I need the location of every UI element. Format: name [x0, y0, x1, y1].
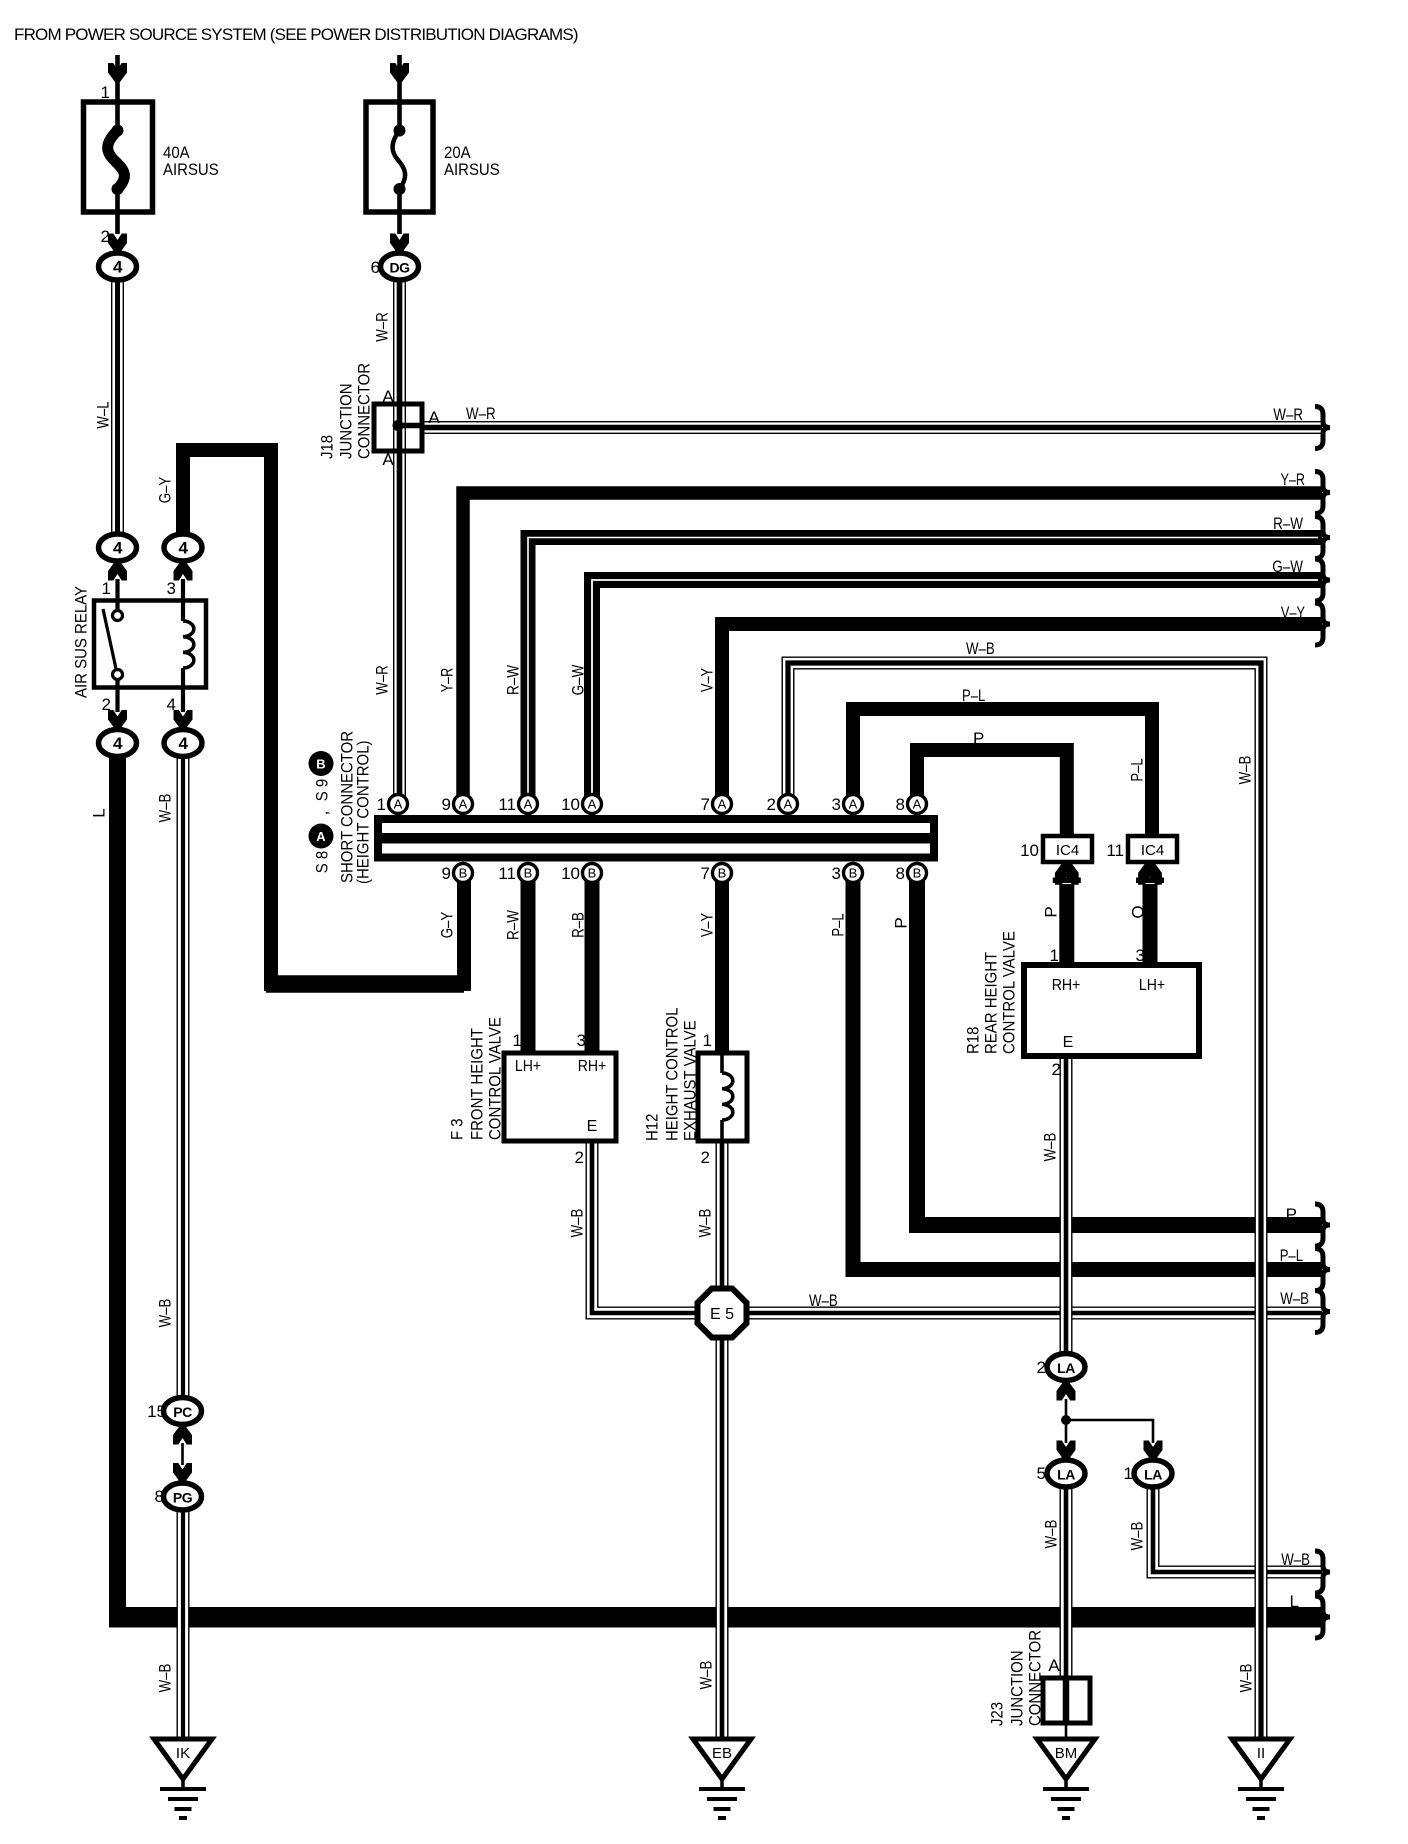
label G-Y at 9B — [438, 912, 457, 939]
svg-text:W–L: W–L — [94, 401, 113, 428]
connector 5 LA — [1037, 1460, 1085, 1487]
title text — [14, 25, 578, 44]
label R-B at 10B — [569, 912, 588, 938]
short connector name — [338, 731, 373, 884]
relay name AIR SUS RELAY — [72, 586, 91, 698]
label V-Y — [698, 668, 717, 692]
edge label P — [1286, 1205, 1297, 1224]
svg-text:CONTROL VALVE: CONTROL VALVE — [1000, 931, 1019, 1054]
wire W-B H12 E to E5 — [716, 1141, 729, 1290]
brace L right edge — [1315, 1596, 1330, 1638]
pin 3B — [832, 864, 863, 884]
svg-text:10: 10 — [1020, 841, 1039, 860]
svg-text:A: A — [382, 387, 394, 406]
svg-text:4: 4 — [179, 734, 189, 753]
svg-text:R–B: R–B — [569, 912, 588, 938]
splice E5 — [698, 1289, 747, 1338]
svg-text:8: 8 — [896, 864, 905, 883]
svg-text:BM: BM — [1055, 1745, 1078, 1762]
brace G-W right edge — [1315, 559, 1330, 601]
edge label L — [1290, 1592, 1299, 1611]
wire P-L 3A to IC4 no.11 — [853, 709, 1152, 838]
brace W-B lower right edge — [1315, 1551, 1330, 1593]
svg-text:IK: IK — [176, 1745, 190, 1762]
svg-text:R–W: R–W — [504, 910, 523, 940]
svg-text:A: A — [524, 797, 533, 812]
wire V-Y 7A to right edge — [722, 624, 1322, 810]
wire W-B R18 E to 2LA — [1060, 1056, 1073, 1355]
svg-text:REAR HEIGHT: REAR HEIGHT — [982, 952, 1001, 1054]
svg-text:A: A — [394, 797, 403, 812]
svg-text:W–B: W–B — [156, 1664, 175, 1693]
svg-text:AIRSUS: AIRSUS — [163, 160, 219, 179]
svg-text:FRONT HEIGHT: FRONT HEIGHT — [468, 1028, 487, 1140]
F3 pin 3 — [577, 1031, 586, 1050]
svg-text:7: 7 — [701, 864, 710, 883]
wire W-B 5LA to J23 — [1060, 1486, 1073, 1680]
svg-text:W–R: W–R — [466, 404, 496, 423]
relay pin 4 — [167, 695, 176, 714]
svg-text:JUNCTION: JUNCTION — [1008, 1650, 1027, 1726]
edge label Y-R — [1281, 470, 1305, 489]
connector 8 PG — [155, 1483, 202, 1510]
fuse1 pin 2 — [101, 227, 110, 246]
label W-B relay out — [156, 794, 175, 823]
edge label V-Y — [1281, 603, 1305, 622]
svg-text:P: P — [973, 729, 984, 748]
label W-B to IK — [156, 1664, 175, 1693]
R18 pin 3 — [1136, 946, 1145, 965]
svg-text:P: P — [1286, 1205, 1297, 1224]
svg-text:A: A — [1048, 1656, 1060, 1675]
svg-text:B: B — [459, 866, 468, 881]
svg-text:FROM POWER SOURCE SYSTEM (SEE: FROM POWER SOURCE SYSTEM (SEE POWER DIST… — [14, 25, 578, 44]
svg-text:W–B: W–B — [809, 1291, 838, 1310]
label P 8A — [973, 729, 984, 748]
junction IC4 no.11 — [1106, 836, 1177, 862]
svg-text:IC4: IC4 — [1056, 842, 1079, 859]
ground II — [1232, 1739, 1290, 1818]
svg-text:9: 9 — [442, 795, 451, 814]
connector 4 relay pin3 — [164, 534, 202, 561]
wire G-Y relay pin3 loop to short connector 9B — [183, 450, 464, 984]
svg-text:1: 1 — [513, 1031, 522, 1050]
wire W-B F3 E to E5 — [592, 1141, 700, 1313]
front height control valve F3 — [504, 1053, 616, 1141]
pin 9B — [442, 864, 473, 884]
svg-text:L: L — [90, 808, 109, 817]
brace P right edge — [1315, 1204, 1330, 1246]
label W-B 1LA — [1128, 1522, 1147, 1551]
svg-text:15: 15 — [147, 1402, 166, 1421]
svg-text:B: B — [588, 866, 597, 881]
svg-text:A: A — [316, 829, 326, 844]
label W-B to EB — [697, 1661, 716, 1690]
label W-B right side — [1236, 756, 1255, 785]
fuse1 pin 1 — [101, 83, 110, 102]
R18 pin 2 — [1052, 1060, 1061, 1079]
wire R-W 11B to F3 pin1 — [521, 878, 536, 1053]
svg-text:H12: H12 — [643, 1114, 662, 1141]
svg-text:2: 2 — [1052, 1060, 1061, 1079]
svg-text:4: 4 — [113, 539, 123, 558]
label P to IC4 — [1042, 906, 1061, 917]
svg-text:II: II — [1257, 1745, 1265, 1762]
svg-text:3: 3 — [832, 795, 841, 814]
svg-text:G–W: G–W — [1272, 557, 1303, 576]
J18 pin A right — [428, 408, 440, 427]
svg-text:B: B — [524, 866, 533, 881]
svg-text:5: 5 — [1037, 1464, 1046, 1483]
svg-text:10: 10 — [561, 795, 580, 814]
brace W-B right edge — [1315, 1291, 1330, 1333]
svg-text:8: 8 — [896, 795, 905, 814]
label R-W at 11B — [504, 910, 523, 940]
J18 name — [318, 363, 374, 459]
svg-text:HEIGHT CONTROL: HEIGHT CONTROL — [663, 1008, 682, 1142]
wire W-B PG to ground IK — [177, 1508, 190, 1740]
svg-text:LA: LA — [1057, 1467, 1075, 1483]
connector 4 relay pin1 — [99, 534, 137, 561]
label G-Y — [156, 477, 175, 504]
J23 pin A — [1048, 1656, 1060, 1675]
LA branch node — [1057, 1382, 1163, 1460]
svg-text:E: E — [587, 1118, 598, 1135]
svg-text:11: 11 — [498, 864, 516, 883]
svg-text:W–B: W–B — [1128, 1522, 1147, 1551]
label G-W — [569, 665, 588, 696]
svg-text:CONNECTOR: CONNECTOR — [355, 363, 374, 459]
svg-text:W–B: W–B — [966, 639, 995, 658]
svg-text:W–B: W–B — [156, 1299, 175, 1328]
air sus relay box — [94, 579, 206, 712]
svg-text:JUNCTION: JUNCTION — [337, 383, 356, 459]
label V-Y at 7B — [698, 913, 717, 937]
short connector id S8 S9 — [309, 751, 334, 873]
svg-text:1: 1 — [1124, 1464, 1133, 1483]
short connector bar S8/S9 — [378, 819, 935, 858]
label P-L at 3B — [829, 913, 848, 936]
label Y-R — [438, 668, 457, 692]
fuse1 value 40A AIRSUS — [163, 143, 219, 179]
svg-text:11: 11 — [1106, 841, 1124, 860]
pin 8A — [896, 795, 927, 815]
svg-text:W–R: W–R — [373, 665, 392, 695]
arrow into connector pin2 — [108, 710, 127, 729]
edge label W-R — [1273, 405, 1303, 424]
connector 15 PC — [147, 1398, 201, 1425]
wire W-B 1LA to right edge — [1153, 1486, 1322, 1572]
label W-R fuse2 — [373, 312, 392, 342]
F3 pin 1 — [513, 1031, 522, 1050]
svg-text:G–W: G–W — [569, 665, 588, 696]
edge label G-W — [1272, 557, 1303, 576]
brace V-Y right edge — [1315, 603, 1330, 645]
pin 7B — [701, 864, 732, 884]
ground EB — [693, 1739, 751, 1818]
pin 10B — [561, 864, 601, 884]
relay pin 2 — [102, 695, 111, 714]
svg-text:PC: PC — [173, 1404, 192, 1420]
svg-text:8: 8 — [155, 1487, 164, 1506]
svg-text:4: 4 — [113, 258, 123, 277]
svg-text:W–B: W–B — [1281, 1550, 1310, 1569]
svg-text:RH+: RH+ — [578, 1058, 607, 1075]
svg-text:2: 2 — [575, 1148, 584, 1167]
wire V-Y 7B to H12 pin1 — [715, 878, 729, 1053]
svg-text:6: 6 — [371, 258, 380, 277]
F3 name — [448, 1017, 505, 1140]
label R-W — [504, 665, 523, 695]
svg-text:3: 3 — [167, 579, 176, 598]
svg-text:A: A — [718, 797, 727, 812]
label W-R at J18 — [466, 404, 496, 423]
svg-text:3: 3 — [832, 864, 841, 883]
svg-text:W–B: W–B — [1237, 1664, 1256, 1693]
connector 1 LA — [1124, 1460, 1172, 1487]
svg-text:W–B: W–B — [1042, 1520, 1061, 1549]
label W-B R18 E — [1041, 1133, 1060, 1162]
ground IK — [154, 1739, 212, 1818]
wire W-B relay pin4 to PC — [177, 757, 190, 1399]
edge label W-B — [1280, 1289, 1309, 1308]
svg-text:A: A — [849, 797, 858, 812]
svg-text:L: L — [1290, 1592, 1299, 1611]
svg-text:W–B: W–B — [1236, 756, 1255, 785]
junction connector J18 — [374, 404, 424, 451]
svg-text:11: 11 — [498, 795, 516, 814]
pin 9A — [442, 795, 473, 815]
svg-text:W–B: W–B — [697, 1661, 716, 1690]
svg-text:3: 3 — [1136, 946, 1145, 965]
svg-text:S 8: S 8 — [313, 851, 332, 874]
pin 8B — [896, 864, 927, 884]
wire W-R fuse2 through J18 to 1A — [393, 278, 406, 798]
svg-text:G–Y: G–Y — [156, 477, 175, 504]
svg-text:P–L: P–L — [1280, 1246, 1303, 1265]
wire R-W 11A to right edge — [528, 538, 1322, 811]
brace Y-R right edge — [1315, 472, 1330, 514]
label W-L — [94, 401, 113, 428]
relay pin 3 — [167, 579, 176, 598]
H12 pin 1 — [703, 1031, 712, 1050]
svg-text:2: 2 — [102, 695, 111, 714]
R18 pin 1 — [1050, 946, 1059, 965]
height control exhaust valve H12 — [698, 1053, 747, 1141]
label P-L 3A — [962, 686, 985, 705]
svg-text:1: 1 — [703, 1031, 712, 1050]
connector 4 relay pin2 — [99, 730, 137, 757]
svg-text:LH+: LH+ — [1139, 977, 1165, 994]
svg-text:1: 1 — [102, 579, 111, 598]
wire P 8B to right edge — [917, 878, 1322, 1225]
svg-text:W–B: W–B — [568, 1209, 587, 1238]
fuse 20A AIRSUS — [366, 55, 433, 253]
label W-B 5LA — [1042, 1520, 1061, 1549]
svg-text:Y–R: Y–R — [1281, 470, 1305, 489]
svg-text:W–B: W–B — [1041, 1133, 1060, 1162]
svg-text:G–Y: G–Y — [438, 912, 457, 939]
svg-text:A: A — [588, 797, 597, 812]
svg-text:P: P — [892, 917, 911, 928]
fuse 40A AIRSUS — [84, 55, 153, 253]
svg-text:RH+: RH+ — [1052, 977, 1081, 994]
svg-text:DG: DG — [390, 260, 411, 276]
svg-text:P–L: P–L — [1128, 758, 1147, 781]
svg-text:(HEIGHT CONTROL): (HEIGHT CONTROL) — [354, 741, 373, 885]
svg-text:R–W: R–W — [1273, 514, 1303, 533]
svg-text:3: 3 — [577, 1031, 586, 1050]
svg-text:J23: J23 — [988, 1702, 1007, 1726]
svg-text:LA: LA — [1144, 1467, 1162, 1483]
svg-text:AIR SUS RELAY: AIR SUS RELAY — [72, 586, 91, 698]
svg-text:Y–R: Y–R — [438, 668, 457, 692]
svg-text:P: P — [1042, 906, 1061, 917]
wire W-L fuse1 to relay connector — [111, 278, 124, 562]
svg-text:W–B: W–B — [696, 1209, 715, 1238]
edge label W-B lower — [1281, 1550, 1310, 1569]
svg-text:LH+: LH+ — [515, 1058, 541, 1075]
label P at 8B — [892, 917, 911, 928]
wire R-B 10B to F3 pin3 — [585, 878, 600, 1053]
label W-B 2A — [966, 639, 995, 658]
svg-text:B: B — [316, 757, 325, 772]
svg-text:J18: J18 — [318, 435, 337, 459]
svg-text:7: 7 — [701, 795, 710, 814]
label W-B to II — [1237, 1664, 1256, 1693]
H12 name — [643, 1008, 700, 1142]
svg-text:4: 4 — [167, 695, 176, 714]
pin 11A — [498, 795, 537, 815]
rear height control valve R18 — [1024, 965, 1199, 1056]
svg-text:F 3: F 3 — [448, 1118, 467, 1140]
J18 pin A bottom — [382, 450, 394, 469]
brace P-L right edge — [1315, 1249, 1330, 1291]
svg-text:IC4: IC4 — [1141, 842, 1164, 859]
fuse2 value 20A AIRSUS — [444, 143, 500, 179]
svg-text:W–B: W–B — [156, 794, 175, 823]
svg-text:4: 4 — [179, 539, 189, 558]
svg-text:V–Y: V–Y — [698, 913, 717, 937]
svg-text:R–W: R–W — [504, 665, 523, 695]
pin 2A — [767, 795, 798, 815]
svg-text:V–Y: V–Y — [698, 668, 717, 692]
junction connector J23 — [1043, 1678, 1090, 1740]
svg-text:,: , — [313, 811, 332, 816]
label W-B F3 E — [568, 1209, 587, 1238]
svg-text:1: 1 — [377, 795, 386, 814]
brace R-W right edge — [1315, 517, 1330, 559]
edge label P-L — [1280, 1246, 1303, 1265]
arrow into connector pin1 — [108, 562, 127, 581]
wire P 8A to IC4 no.10 — [917, 750, 1067, 838]
svg-text:S 9: S 9 — [313, 779, 332, 802]
J23 name — [988, 1630, 1045, 1726]
svg-text:A: A — [784, 797, 793, 812]
junction IC4 no.10 — [1020, 836, 1092, 862]
svg-text:E: E — [1063, 1034, 1074, 1051]
wire P-L 3B to right edge — [853, 878, 1322, 1270]
wire L relay pin2 to right edge (heavy) — [109, 757, 1323, 1628]
label W-B at E5 — [809, 1291, 838, 1310]
svg-text:R18: R18 — [964, 1027, 983, 1054]
F3 pin 2 — [575, 1148, 584, 1167]
label P-L vertical — [1128, 758, 1147, 781]
pin 7A — [701, 795, 732, 815]
connector 4 relay pin4 — [164, 730, 202, 757]
svg-text:LA: LA — [1057, 1360, 1075, 1376]
arrow into connector pin4 — [174, 710, 193, 729]
svg-text:B: B — [849, 866, 858, 881]
svg-text:9: 9 — [442, 864, 451, 883]
wire W-B E5 to right edge — [744, 1307, 1322, 1320]
svg-text:EB: EB — [712, 1745, 732, 1762]
wire W-B 2A to right edge and ground II — [788, 663, 1261, 1740]
wire W-R J18 to right edge — [420, 421, 1322, 434]
svg-text:EXHAUST VALVE: EXHAUST VALVE — [681, 1020, 700, 1141]
svg-text:A: A — [913, 797, 922, 812]
svg-text:AIRSUS: AIRSUS — [444, 160, 500, 179]
svg-text:B: B — [718, 866, 727, 881]
PC/PG arrows and link — [173, 1426, 192, 1483]
svg-text:1: 1 — [101, 83, 110, 102]
svg-text:B: B — [913, 866, 922, 881]
pin 10A — [561, 795, 601, 815]
svg-text:P–L: P–L — [829, 913, 848, 936]
svg-text:2: 2 — [767, 795, 776, 814]
svg-text:4: 4 — [113, 734, 123, 753]
brace W-R right edge — [1315, 407, 1330, 449]
svg-text:V–Y: V–Y — [1281, 603, 1305, 622]
svg-text:O: O — [1129, 905, 1148, 918]
svg-text:W–R: W–R — [1273, 405, 1303, 424]
relay pin 1 — [102, 579, 111, 598]
svg-text:W–B: W–B — [1280, 1289, 1309, 1308]
connector 2 LA — [1037, 1354, 1085, 1381]
label O to IC4 — [1129, 905, 1148, 918]
svg-text:A: A — [459, 797, 468, 812]
svg-text:2: 2 — [1037, 1358, 1046, 1377]
pin 3A — [832, 795, 863, 815]
svg-text:1: 1 — [1050, 946, 1059, 965]
svg-text:A: A — [382, 450, 394, 469]
wire Y-R 9A to right edge — [463, 493, 1322, 810]
svg-text:A: A — [428, 408, 440, 427]
svg-text:CONTROL VALVE: CONTROL VALVE — [486, 1017, 505, 1140]
connector 6 DG below fuse2 — [371, 253, 419, 280]
wire G-W 10A to right edge — [592, 580, 1322, 810]
H12 pin 2 — [701, 1148, 710, 1167]
label W-B H12 E — [696, 1209, 715, 1238]
R18 name — [964, 931, 1019, 1054]
svg-text:2: 2 — [101, 227, 110, 246]
svg-text:E 5: E 5 — [710, 1306, 734, 1323]
pin 11B — [498, 864, 537, 884]
J18 pin A top — [382, 387, 394, 406]
svg-text:PG: PG — [173, 1490, 193, 1506]
svg-text:P–L: P–L — [962, 686, 985, 705]
wire O R18 LH+ to IC4 no.11 arrow — [1143, 884, 1158, 966]
edge label R-W — [1273, 514, 1303, 533]
svg-text:10: 10 — [561, 864, 580, 883]
svg-text:CONNECTOR: CONNECTOR — [1026, 1630, 1045, 1726]
IC4 arrows — [1053, 861, 1164, 885]
label W-R to 1A — [373, 665, 392, 695]
svg-text:2: 2 — [701, 1148, 710, 1167]
label W-B to PC — [156, 1299, 175, 1328]
svg-text:W–R: W–R — [373, 312, 392, 342]
connector 4 below fuse1 — [99, 253, 137, 280]
